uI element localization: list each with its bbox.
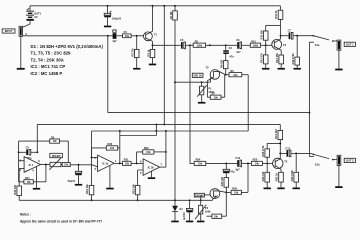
transistor T5 xyxy=(273,158,288,169)
svg-text:R28 270k: R28 270k xyxy=(261,145,265,157)
resistor R23 pin5 to rail xyxy=(131,184,140,202)
svg-text:10k: 10k xyxy=(234,191,239,195)
wire input signal line xyxy=(23,35,113,37)
wire gate line R4 column to T2 xyxy=(174,81,203,83)
svg-text:R8: R8 xyxy=(195,39,199,43)
label box 2SK30 xyxy=(192,73,203,77)
wire IC2b pin5 xyxy=(138,170,144,185)
connector J1 input jack xyxy=(19,26,22,36)
svg-text:R33 100k: R33 100k xyxy=(290,170,294,182)
svg-text:IC1 : MC1 741 CP: IC1 : MC1 741 CP xyxy=(31,64,66,69)
resistor R13 to ground xyxy=(259,45,268,68)
node A xyxy=(25,32,27,36)
svg-text:R6: R6 xyxy=(230,69,234,73)
svg-text:10k: 10k xyxy=(255,162,260,166)
capacitor C12 output xyxy=(280,146,297,156)
resistor R21 xyxy=(123,158,144,166)
svg-text:47n: 47n xyxy=(230,55,235,59)
label SPEED xyxy=(50,153,63,158)
svg-text:R18 10k: R18 10k xyxy=(13,184,17,194)
wire bus y124.4 xyxy=(37,123,280,125)
svg-text:4µ7/10: 4µ7/10 xyxy=(182,212,186,220)
op-amp IC2a xyxy=(94,155,117,171)
svg-text:C7: C7 xyxy=(288,29,292,33)
ground IC2a xyxy=(106,188,114,190)
resistor R14 emitter xyxy=(275,50,284,68)
ground R33 xyxy=(293,188,300,190)
resistor R22 feedback IC2b xyxy=(137,146,167,163)
svg-text:100k: 100k xyxy=(253,43,259,47)
switch S1b xyxy=(296,153,337,166)
svg-text:R14 150: R14 150 xyxy=(275,53,279,63)
svg-text:IC 2a: IC 2a xyxy=(102,162,109,166)
ground IC1 xyxy=(33,188,40,190)
svg-text:IC2 : MC 1458 P: IC2 : MC 1458 P xyxy=(31,71,63,76)
capacitor C14 xyxy=(223,163,235,177)
resistor R33 to ground xyxy=(290,153,299,187)
junction on signal line xyxy=(107,35,109,37)
svg-text:C3: C3 xyxy=(26,145,30,149)
resistor R4 xyxy=(169,5,177,20)
ground R32 xyxy=(277,188,284,190)
svg-text:IC 2b: IC 2b xyxy=(148,165,155,169)
label INPUT xyxy=(2,29,15,33)
resistor R26 drain series xyxy=(226,187,248,195)
svg-text:R2 27k: R2 27k xyxy=(131,48,135,57)
svg-text:2SK 30: 2SK 30 xyxy=(193,73,202,77)
wire IC2a output xyxy=(114,162,122,164)
svg-text:R10: R10 xyxy=(251,39,256,43)
wire IC2a pin4 ground xyxy=(109,166,111,188)
svg-text:100k: 100k xyxy=(205,209,211,213)
svg-text:15k: 15k xyxy=(125,34,130,38)
resistor R10 100k xyxy=(250,39,272,47)
capacitor C10 xyxy=(67,165,82,184)
svg-text:S1a: S1a xyxy=(315,43,320,47)
resistor R9 1M xyxy=(219,54,228,76)
svg-text:47µ/10: 47µ/10 xyxy=(67,179,75,183)
battery BAT1 9V xyxy=(22,6,42,28)
ground C1 xyxy=(104,26,111,28)
resistor R16 to ground xyxy=(291,36,300,68)
svg-text:1M: 1M xyxy=(53,139,57,143)
capacitor C1 100u/10 xyxy=(104,5,121,26)
resistor R27 wiper xyxy=(207,192,227,218)
resistor R11 xyxy=(274,6,283,26)
wire bus y112.6 input to x309 xyxy=(108,36,310,113)
svg-text:Approx the same circuit is use: Approx the same circuit is used in ST- 8… xyxy=(20,219,102,223)
svg-text:R20: R20 xyxy=(108,142,113,146)
ground C10 xyxy=(75,184,82,186)
ground R2 xyxy=(133,68,140,70)
svg-text:R24: R24 xyxy=(196,158,201,162)
transistor T4 JFET xyxy=(201,189,227,201)
wire IC2a top input xyxy=(91,157,98,159)
svg-text:R1: R1 xyxy=(124,30,128,34)
capacitor C5 series xyxy=(180,38,193,49)
svg-text:47µ: 47µ xyxy=(230,169,235,173)
svg-text:R29 10k: R29 10k xyxy=(261,171,265,181)
op-amp IC1 xyxy=(19,157,40,173)
ground D1 xyxy=(171,221,178,223)
svg-text:D1 : 1N 82H +ZPD 5V1 (0,1V/400: D1 : 1N 82H +ZPD 5V1 (0,1V/400mA) xyxy=(31,44,104,49)
ground OUT2 xyxy=(335,186,342,188)
notes text xyxy=(20,213,102,224)
svg-text:4µ7: 4µ7 xyxy=(112,39,117,43)
potentiometer P3 xyxy=(195,205,211,221)
wire T4 gate down xyxy=(200,195,202,205)
svg-text:OUT 2: OUT 2 xyxy=(346,159,354,163)
resistor R6 drain series xyxy=(226,69,249,77)
svg-text:10k: 10k xyxy=(198,162,203,166)
svg-text:10k: 10k xyxy=(64,163,69,167)
resistor R1 xyxy=(123,30,144,38)
wire input jack to ground xyxy=(20,36,22,68)
wire upper bus to R11 xyxy=(266,24,281,26)
ground C15 xyxy=(186,221,193,223)
svg-text:R13 27k: R13 27k xyxy=(259,53,263,63)
capacitor C13 series xyxy=(235,156,251,172)
wire x309 column switch to lower bus xyxy=(308,42,310,156)
svg-text:9V: 9V xyxy=(34,15,37,19)
svg-text:A: A xyxy=(25,32,27,36)
svg-text:100µ/10: 100µ/10 xyxy=(112,16,122,20)
resistor R32 emitter xyxy=(275,169,284,187)
svg-text:R19 10k: R19 10k xyxy=(85,184,89,194)
label OUT 1 xyxy=(344,42,355,46)
svg-text:INPUT: INPUT xyxy=(5,29,13,33)
ground R14 xyxy=(278,68,285,70)
potentiometer P1 xyxy=(197,82,214,102)
wire IC1 pin4 ground xyxy=(36,167,38,188)
resistor R17 feedback xyxy=(19,165,46,184)
wire x190 drop to R22 line xyxy=(190,45,194,163)
wire T3 collector xyxy=(280,25,282,39)
wire IC1 pin2 xyxy=(19,160,25,162)
wire x119.8 column xyxy=(119,131,121,163)
ground R16 xyxy=(294,68,301,70)
wire IC1 output xyxy=(41,164,50,166)
wire x91.5 column xyxy=(91,131,93,185)
resistor R8 150k xyxy=(193,39,237,47)
wire x248 lower link xyxy=(247,163,249,192)
svg-text:R16 100k: R16 100k xyxy=(291,53,295,65)
svg-text:R21: R21 xyxy=(124,158,129,162)
resistor R16b feedback top xyxy=(19,135,69,162)
resistor R20 feedback IC2a xyxy=(92,142,120,157)
resistor R24 output chain xyxy=(194,158,237,166)
svg-text:R23 10k: R23 10k xyxy=(131,184,135,194)
wire bus drop to IC1 inv node xyxy=(36,124,38,153)
wire x248 column R6 to y131 bus xyxy=(247,75,249,131)
resistor R19 to rail xyxy=(85,184,94,202)
capacitor C4 xyxy=(223,45,234,58)
op-amp IC2b xyxy=(140,159,163,175)
wire inv node column x18.6 xyxy=(18,141,20,182)
svg-text:OUT 1: OUT 1 xyxy=(346,43,354,47)
wire T1 collector to rail xyxy=(152,5,154,31)
ground IC2b xyxy=(148,177,155,179)
connector OUT2 xyxy=(337,155,341,186)
wire top +9V rail xyxy=(30,5,280,7)
capacitor C6 series xyxy=(236,38,250,54)
wire bottom rail xyxy=(19,199,212,201)
label box 2SK30 b xyxy=(194,193,204,197)
svg-text:R9 1M: R9 1M xyxy=(219,60,223,68)
svg-text:C4: C4 xyxy=(229,46,233,50)
transistor T2 JFET xyxy=(202,65,226,97)
resistor R12 xyxy=(259,25,268,45)
svg-text:R31 3k3: R31 3k3 xyxy=(274,129,278,139)
svg-text:10k: 10k xyxy=(214,214,219,218)
svg-text:R26: R26 xyxy=(232,187,237,191)
svg-text:R12 1M: R12 1M xyxy=(259,30,263,39)
svg-text:C5: C5 xyxy=(180,38,184,42)
svg-text:Notes :: Notes : xyxy=(20,213,31,217)
ground OUT1 xyxy=(335,69,342,71)
svg-text:T2, T4 : 2SK 30A: T2, T4 : 2SK 30A xyxy=(31,57,64,62)
svg-text:1M: 1M xyxy=(27,180,31,184)
svg-text:S1b: S1b xyxy=(315,162,320,166)
parts list text xyxy=(31,44,104,76)
wire emitter line to C5 xyxy=(153,44,182,46)
svg-text:10k: 10k xyxy=(233,73,238,77)
switch S1a xyxy=(309,35,337,47)
diode D1 xyxy=(172,200,183,220)
svg-text:R17: R17 xyxy=(25,176,30,180)
label OUT 2 xyxy=(344,158,355,162)
ground input xyxy=(17,68,25,70)
wire y135.5 link xyxy=(120,135,157,137)
transistor T1 xyxy=(144,31,158,41)
resistor R30 xyxy=(220,177,229,193)
svg-text:-: - xyxy=(26,161,27,164)
resistor R2 to ground xyxy=(131,36,139,68)
resistor R28 base up xyxy=(261,143,280,163)
transistor T3 xyxy=(272,39,287,50)
svg-text:4µ7: 4µ7 xyxy=(235,168,240,172)
wire IC2b output xyxy=(160,166,166,168)
resistor R25 xyxy=(251,158,275,166)
resistor R3 to ground xyxy=(146,45,154,63)
svg-text:4n7: 4n7 xyxy=(236,50,241,54)
wire vertical bus x164 rail to lower bus xyxy=(163,5,165,126)
capacitor C15 4u7 xyxy=(182,199,193,220)
resistor R18 pin3 to rail xyxy=(13,184,22,200)
svg-text:IC 1: IC 1 xyxy=(29,163,34,167)
resistor R29 base down xyxy=(261,163,270,187)
resistor R15 xyxy=(62,162,97,167)
capacitor C7 output xyxy=(281,29,314,40)
ground R13 xyxy=(262,68,269,70)
svg-text:R11 1k: R11 1k xyxy=(274,10,278,19)
svg-text:R3 1k: R3 1k xyxy=(146,49,150,56)
potentiometer P2 speed xyxy=(49,158,62,170)
resistor R7 xyxy=(207,75,224,100)
wire bus y131 xyxy=(92,130,249,132)
wire IC1 pin3 xyxy=(19,169,24,186)
ground R3 xyxy=(149,64,156,66)
svg-text:150k: 150k xyxy=(197,43,203,47)
ground R29 xyxy=(264,188,271,190)
capacitor C2 series xyxy=(112,30,122,43)
ground P3 xyxy=(197,221,205,223)
svg-text:C6: C6 xyxy=(236,38,240,42)
svg-text:10k: 10k xyxy=(125,162,130,166)
svg-text:R30 1M: R30 1M xyxy=(220,177,224,186)
wire R4 column down to bottom rail xyxy=(174,20,176,200)
svg-text:R7: R7 xyxy=(212,91,216,95)
svg-text:R22: R22 xyxy=(144,146,149,150)
svg-text:R5: R5 xyxy=(51,135,55,139)
wire x165.9 column output IC2b xyxy=(165,131,167,167)
svg-text:C13: C13 xyxy=(235,156,240,160)
svg-text:SPEED: SPEED xyxy=(52,154,61,158)
svg-text:T1, T3, T5 : 2SC 829: T1, T3, T5 : 2SC 829 xyxy=(31,51,72,56)
svg-text:10k: 10k xyxy=(110,146,115,150)
svg-text:10k: 10k xyxy=(146,150,151,154)
svg-text:R25: R25 xyxy=(253,158,258,162)
ground P1 xyxy=(198,102,206,104)
svg-text:D1: D1 xyxy=(180,207,184,211)
wire IC2b pin4 ground xyxy=(151,171,153,177)
wire T1 emitter down xyxy=(152,41,154,46)
svg-text:R4 1M: R4 1M xyxy=(169,12,173,20)
wire x156.4 link xyxy=(155,124,157,135)
resistor R31 collector load xyxy=(274,124,283,158)
capacitor C3 feedback IC1 xyxy=(18,145,38,160)
svg-text:R32 1k: R32 1k xyxy=(275,172,279,181)
connector OUT1 xyxy=(337,40,341,69)
svg-text:2SK 30: 2SK 30 xyxy=(195,193,204,197)
svg-text:10k: 10k xyxy=(214,95,219,99)
